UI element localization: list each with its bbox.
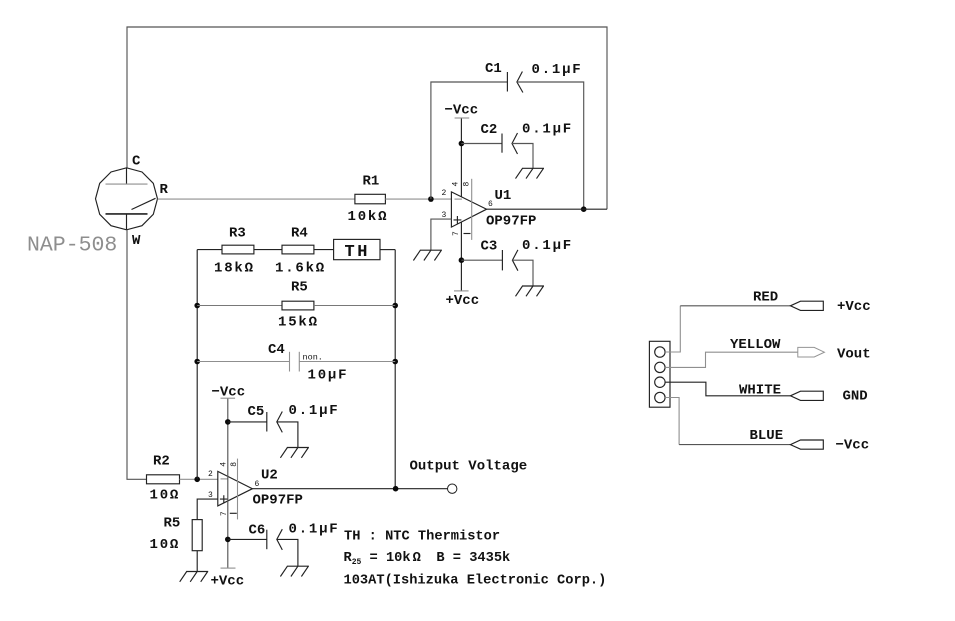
wire R5 to ground — [196, 551, 198, 572]
resistor R5 10ohm — [192, 520, 202, 551]
svg-text:GND: GND — [843, 389, 868, 405]
wire R4-TH — [314, 249, 334, 251]
node U1 pin2 — [428, 196, 434, 202]
wire sensor W down to R2 — [127, 230, 147, 479]
wire pin1 to +Vcc tag — [665, 306, 680, 352]
svg-text:0.1μF: 0.1μF — [289, 403, 340, 419]
svg-text:0.1μF: 0.1μF — [522, 238, 573, 254]
connector pin 1 — [655, 347, 665, 357]
svg-text:U2: U2 — [261, 468, 278, 484]
svg-text:+Vcc: +Vcc — [446, 293, 480, 309]
wire C2 left — [461, 143, 502, 145]
tag +Vcc — [790, 301, 823, 310]
ground C3 — [516, 286, 545, 296]
node network left C4 row — [194, 359, 200, 365]
tag -Vcc — [790, 440, 823, 449]
wire C2 right to ground — [512, 144, 533, 169]
wire pin3 to GND tag — [665, 382, 790, 396]
svg-text:C4: C4 — [268, 342, 285, 358]
tag GND — [790, 391, 823, 400]
U1 pin7 wire — [460, 222, 462, 291]
resistor R1 — [355, 194, 386, 204]
svg-text:BLUE: BLUE — [750, 428, 784, 444]
wire U1 pin3 to ground — [431, 219, 452, 250]
svg-text:R5: R5 — [291, 280, 308, 296]
svg-text:7: 7 — [220, 511, 229, 516]
thermistor TH — [334, 239, 380, 259]
-Vcc terminal U2 — [221, 397, 236, 399]
svg-text:7: 7 — [452, 231, 461, 236]
wire C1 right to output — [517, 82, 584, 209]
connector body — [649, 341, 670, 407]
node C1/output — [581, 206, 587, 212]
ground C5 — [280, 448, 309, 458]
svg-text:0.1μF: 0.1μF — [289, 522, 340, 538]
svg-text:U1: U1 — [495, 188, 512, 204]
resistor R5 15k — [282, 301, 314, 310]
svg-text:C5: C5 — [248, 404, 265, 420]
capacitor C2 — [501, 134, 503, 153]
svg-text:10kΩ: 10kΩ — [348, 209, 389, 225]
svg-text:0.1μF: 0.1μF — [522, 122, 573, 138]
node network left R5 row — [194, 303, 200, 309]
U1 pin8 stub — [471, 179, 473, 240]
wire R5 row left — [197, 305, 282, 307]
svg-text:Vout: Vout — [837, 347, 871, 363]
op-amp U1 — [451, 192, 486, 227]
svg-text:−Vcc: −Vcc — [212, 385, 246, 401]
wire C3 left — [461, 259, 502, 261]
svg-text:Output Voltage: Output Voltage — [410, 459, 528, 475]
node network right R5 row — [392, 303, 398, 309]
svg-text:8: 8 — [463, 182, 472, 187]
wire pin2 to Vout tag — [665, 352, 798, 367]
U1 plus input mark — [454, 216, 462, 224]
wire C6 right to ground — [277, 539, 298, 566]
svg-text:C6: C6 — [249, 523, 266, 539]
svg-text:+Vcc: +Vcc — [211, 574, 245, 590]
node C2 branch — [459, 141, 465, 147]
wire feedback top — [127, 27, 607, 209]
svg-text:RED: RED — [753, 289, 778, 305]
node C6 branch — [225, 537, 231, 543]
sensor NAP-508 body — [96, 168, 158, 230]
ground C2 — [516, 168, 545, 178]
svg-text:10μF: 10μF — [308, 368, 349, 384]
U2 plus input mark — [220, 495, 228, 503]
ground R5 — [180, 572, 209, 582]
svg-text:C2: C2 — [481, 122, 498, 138]
svg-text:+Vcc: +Vcc — [837, 299, 871, 315]
capacitor C5 — [266, 412, 268, 432]
svg-text:C: C — [132, 153, 141, 169]
wire sensor R to R1 — [158, 198, 355, 200]
svg-text:OP97FP: OP97FP — [253, 493, 303, 509]
svg-text:C1: C1 — [485, 61, 502, 77]
op-amp U2 — [218, 471, 253, 506]
svg-text:R4: R4 — [291, 226, 308, 242]
svg-text:15kΩ: 15kΩ — [278, 315, 319, 331]
svg-text:1.6kΩ: 1.6kΩ — [275, 261, 326, 277]
U2 pin8 dash — [230, 512, 237, 514]
connector pin 2 — [655, 362, 665, 372]
svg-text:10Ω: 10Ω — [150, 537, 181, 553]
svg-text:TH: TH — [345, 243, 370, 262]
node C5 branch — [225, 419, 231, 425]
node C3 branch — [459, 257, 465, 263]
node output — [393, 486, 399, 492]
wire U2 pin3 to R5 — [197, 499, 218, 519]
wire C4 row left — [197, 361, 289, 363]
wire row1 left — [197, 249, 222, 251]
svg-text:103AT(Ishizuka Electronic Corp: 103AT(Ishizuka Electronic Corp.) — [344, 573, 607, 588]
svg-text:2: 2 — [208, 470, 213, 479]
svg-text:−Vcc: −Vcc — [445, 103, 479, 119]
wire R3-R4 — [254, 249, 282, 251]
-Vcc terminal U1 — [455, 117, 470, 119]
terminal output voltage — [448, 484, 457, 493]
svg-text:OP97FP: OP97FP — [486, 214, 536, 230]
capacitor C6 — [266, 530, 268, 550]
svg-text:W: W — [132, 233, 141, 249]
ground U1 pin3 — [413, 250, 442, 260]
connector pin 4 — [655, 392, 665, 402]
wire R2 to U2 pin2 — [180, 478, 218, 480]
svg-text:TH : NTC Thermistor: TH : NTC Thermistor — [344, 530, 500, 545]
svg-text:−Vcc: −Vcc — [836, 438, 870, 454]
wire network right vertical — [394, 250, 396, 489]
svg-text:4: 4 — [452, 182, 461, 187]
resistor R2 — [147, 475, 180, 484]
svg-text:R1: R1 — [363, 173, 380, 189]
U1 minus input mark — [455, 198, 463, 200]
wire C6 left — [228, 538, 267, 540]
ground C6 — [280, 566, 309, 576]
svg-text:4: 4 — [220, 462, 229, 467]
resistor R4 — [282, 245, 314, 254]
wire C5 left — [228, 421, 267, 423]
wire network left vertical — [196, 250, 198, 480]
wire pin4 to -Vcc tag — [665, 398, 679, 445]
svg-text:NAP-508: NAP-508 — [27, 234, 117, 258]
wire C1 branch left vertical — [431, 82, 508, 199]
wire U1 output — [487, 208, 607, 210]
U2 pin8 stub — [237, 459, 239, 520]
svg-text:WHITE: WHITE — [739, 383, 781, 399]
svg-text:C3: C3 — [481, 238, 498, 254]
svg-text:R2: R2 — [153, 454, 170, 470]
svg-text:6: 6 — [255, 480, 260, 489]
node junction R2/network — [194, 477, 200, 483]
wire TH to right vertical — [380, 249, 395, 251]
wire C4 row right — [299, 361, 395, 363]
capacitor C4 — [289, 352, 291, 372]
node network right C4 row — [392, 359, 398, 365]
svg-text:R3: R3 — [229, 226, 246, 242]
svg-text:10Ω: 10Ω — [150, 488, 181, 504]
+Vcc terminal U2 — [221, 567, 236, 569]
svg-text:R5: R5 — [164, 515, 181, 531]
svg-text:8: 8 — [230, 462, 239, 467]
capacitor C3 — [501, 250, 503, 270]
connector pin 3 — [655, 377, 665, 387]
tag Vout — [798, 347, 825, 357]
wire R5 row right — [314, 305, 395, 307]
capacitor C1 — [506, 72, 508, 92]
wire C3 right to ground — [512, 260, 533, 286]
svg-text:18kΩ: 18kΩ — [214, 261, 255, 277]
U2 minus input mark — [221, 478, 229, 480]
U2 pin4 wire — [227, 398, 229, 568]
svg-text:6: 6 — [488, 200, 493, 209]
svg-text:2: 2 — [442, 189, 447, 198]
svg-text:R: R — [160, 182, 169, 198]
U1 pin8 dash — [464, 233, 471, 235]
svg-text:YELLOW: YELLOW — [730, 337, 781, 353]
+Vcc terminal U1 — [454, 290, 469, 292]
U1 pin4 wire — [460, 118, 462, 197]
wire U2 output — [252, 488, 447, 490]
resistor R3 — [222, 245, 254, 254]
wire R1 to U1 pin2 — [385, 198, 451, 200]
wire C5 right to ground — [277, 422, 298, 448]
svg-text:0.1μF: 0.1μF — [532, 62, 583, 78]
